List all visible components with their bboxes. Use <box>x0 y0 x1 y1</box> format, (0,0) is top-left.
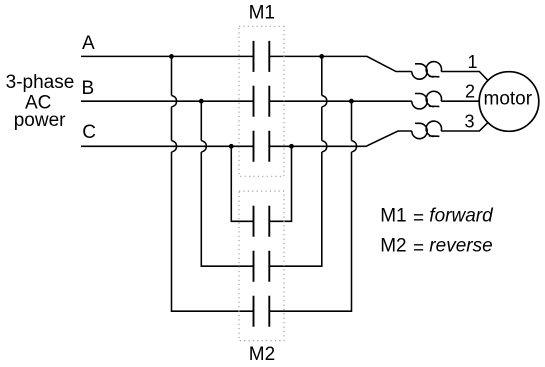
svg-text:forward: forward <box>429 206 494 227</box>
motor circle <box>479 72 539 132</box>
svg-text:1: 1 <box>467 52 477 72</box>
svg-text:M2: M2 <box>249 344 275 365</box>
wire OL3 to motor terminal 3 <box>441 123 488 131</box>
wire phase A left segment <box>81 55 254 57</box>
contactor M2 contact 3 bars <box>254 296 270 327</box>
wire hop V2 over C <box>201 141 206 152</box>
wire OL1 to motor terminal 1 <box>441 72 488 81</box>
wire hop V1 over B <box>172 96 177 107</box>
svg-text:A: A <box>82 33 95 54</box>
wire hop V5 over C <box>322 141 327 152</box>
svg-text:3-phase: 3-phase <box>6 72 75 93</box>
svg-text:M1: M1 <box>380 206 406 227</box>
wire hop V5 over B <box>322 96 327 107</box>
junction node on A at V5 <box>319 54 324 59</box>
wire vertical from C tap down to M2 row 1 left <box>231 146 253 221</box>
junction node on C at V4 <box>289 144 294 149</box>
junction node on C at V3 <box>229 144 234 149</box>
wire vertical from B tap down to M2 row 2 left <box>201 101 253 266</box>
junction node on A at V1 <box>169 54 174 59</box>
wire phase B from M1 to overload heater OL2 <box>269 100 412 102</box>
wire phase C from M1 to overload heater OL3 <box>269 131 412 146</box>
overload heater OL3 <box>412 121 442 139</box>
contactor M1 contact C bars <box>254 131 270 162</box>
wire hop V1 over C <box>172 141 177 152</box>
wire OL2 to motor terminal 2 <box>441 100 479 102</box>
svg-text:reverse: reverse <box>429 236 492 257</box>
wire phase B left segment <box>81 100 254 102</box>
contactor M2 dotted enclosure <box>239 191 284 341</box>
wire vertical from B output down to M2 row 3 right <box>269 101 351 311</box>
junction node on B at V2 <box>199 99 204 104</box>
wire phase A from M1 to overload heater OL1 <box>269 56 412 71</box>
svg-text:motor: motor <box>484 89 533 110</box>
wire hop V6 over C <box>352 141 357 152</box>
contactor M2 contact 2 bars <box>254 251 270 282</box>
overload heater OL1 <box>412 62 442 80</box>
svg-text:3: 3 <box>464 112 474 132</box>
svg-text:=: = <box>413 208 424 229</box>
wire vertical from C output down to M2 row 1 right <box>269 146 291 221</box>
contactor M1 contact A bars <box>254 41 270 72</box>
wire phase C left segment <box>81 145 254 147</box>
svg-text:=: = <box>413 238 424 259</box>
svg-text:M2: M2 <box>380 236 406 257</box>
junction node on B at V6 <box>349 99 354 104</box>
svg-text:power: power <box>14 110 66 131</box>
svg-text:2: 2 <box>465 82 475 102</box>
svg-text:B: B <box>82 78 95 99</box>
overload heater OL2 <box>412 91 442 109</box>
contactor M1 contact B bars <box>254 86 270 117</box>
svg-text:C: C <box>82 122 96 143</box>
contactor M1 dotted enclosure <box>239 26 284 176</box>
wire vertical from A output down to M2 row 2 right <box>269 56 322 266</box>
wire vertical from A tap down to M2 row 3 left <box>172 56 254 311</box>
contactor M2 contact 1 bars <box>254 206 270 237</box>
svg-text:M1: M1 <box>249 3 275 24</box>
